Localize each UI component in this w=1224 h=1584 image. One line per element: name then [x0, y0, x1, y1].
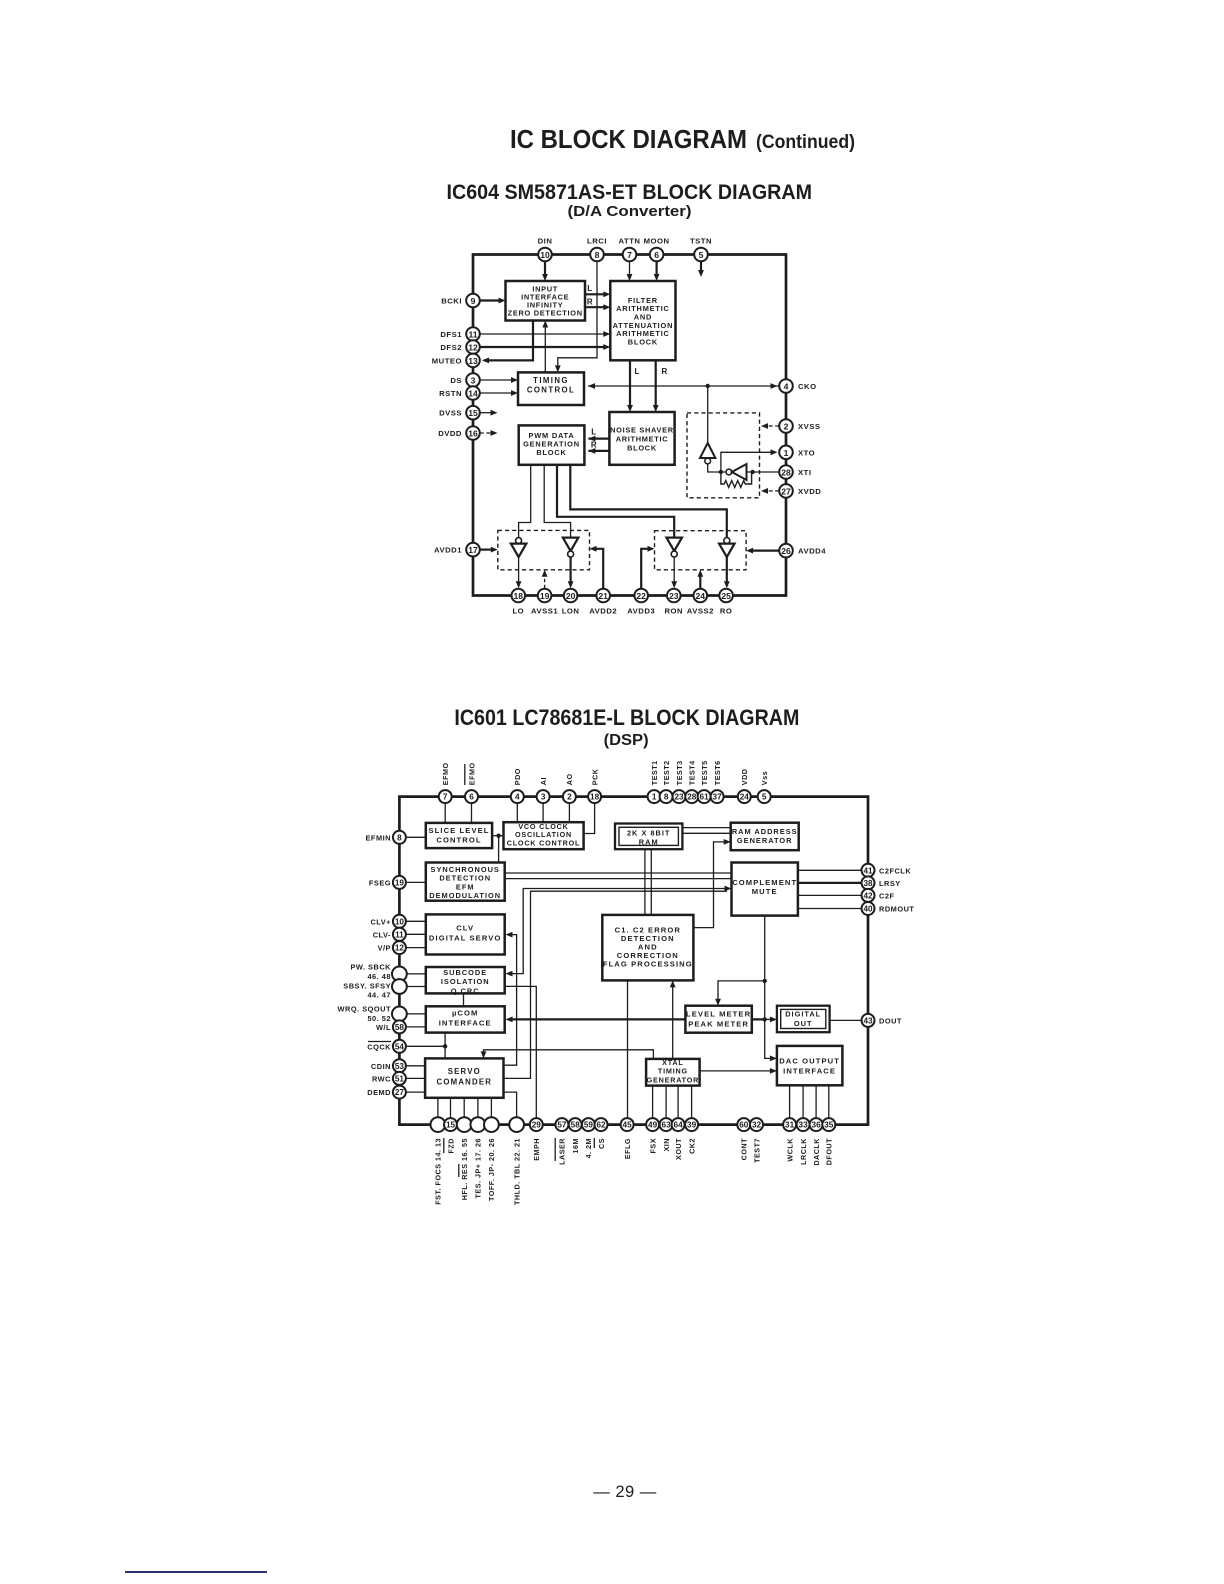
svg-text:RO: RO — [720, 607, 733, 616]
svg-text:CONT: CONT — [740, 1138, 749, 1160]
wire SUBCODE right to EMPH pin29 — [505, 986, 537, 1118]
pin 12 DFS2 — [466, 340, 480, 354]
arrowhead AVSS1 arrow — [542, 570, 548, 577]
buffer amplifier (clock output) — [700, 443, 715, 464]
svg-text:8: 8 — [664, 793, 669, 802]
pin (unnumbered) TES JP+ — [471, 1117, 486, 1132]
pin 8 LRCI — [590, 248, 604, 262]
svg-text:CLV+: CLV+ — [370, 917, 391, 926]
arrowhead into INPUT INTERFACE top — [542, 274, 548, 281]
wire SYNC to COMPLEMENT line 2 — [505, 878, 732, 880]
wire RAM to C1C2 line 2 — [650, 849, 652, 915]
svg-text:16: 16 — [468, 429, 478, 439]
wire DS pin3 to TIMING CONTROL — [480, 379, 514, 381]
wire AVSS2 pin24 into right driver box — [699, 574, 701, 588]
wire C1C2 to EFLG pin45 — [627, 980, 629, 1118]
wire SERVO bottom lead 3 — [463, 1098, 465, 1118]
svg-text:THLD. TBL 22. 21: THLD. TBL 22. 21 — [512, 1138, 521, 1205]
wire COMPLEMENT bottom trunk — [765, 916, 773, 1059]
svg-text:XOUT: XOUT — [674, 1138, 683, 1160]
wire AVDD4 pin26 into right driver box — [751, 549, 780, 551]
svg-text:BLOCK: BLOCK — [536, 448, 566, 457]
svg-text:18: 18 — [514, 591, 524, 601]
svg-text:DOUT: DOUT — [879, 1016, 902, 1025]
wire XTAL to C1C2 — [672, 984, 674, 1059]
wire W/L pin58 to uCOM — [406, 1026, 426, 1028]
pin 28 XTI — [779, 465, 793, 479]
wire C1C2 to RAM ADDRESS GENERATOR — [693, 842, 726, 928]
svg-text:4: 4 — [784, 382, 789, 392]
pin 4 PDO — [511, 790, 524, 803]
svg-text:EFM: EFM — [456, 882, 475, 891]
svg-text:EMPH: EMPH — [532, 1138, 541, 1161]
svg-text:39: 39 — [687, 1121, 697, 1130]
arrowhead ATTN into FILTER top — [627, 274, 633, 281]
svg-text:EFMIN: EFMIN — [366, 833, 392, 842]
svg-text:31: 31 — [785, 1121, 795, 1130]
arrowhead into pin23 — [671, 581, 677, 588]
svg-text:ISOLATION: ISOLATION — [441, 977, 490, 986]
arrowhead into pin20 — [568, 581, 574, 588]
svg-text:RWC: RWC — [372, 1074, 391, 1083]
svg-text:GENERATOR: GENERATOR — [647, 1075, 699, 1084]
wire trunk to uCOM INTERFACE — [509, 1018, 765, 1020]
wire EFMO-bar pin6 to SLICE LEVEL — [471, 803, 473, 823]
pin 16 DVDD — [466, 426, 480, 440]
junction CQCK junction — [443, 1044, 447, 1048]
svg-text:AVSS1: AVSS1 — [531, 607, 558, 616]
svg-text:41: 41 — [863, 866, 873, 875]
pin 36 DACLK — [810, 1118, 823, 1131]
pin 21 AVDD2 — [596, 589, 610, 603]
wire COMPLEMENT to C2FCLK pin41 — [798, 869, 862, 871]
pin 3 DS — [466, 373, 480, 387]
wire COMPLEMENT to RDMOUT pin40 — [798, 908, 862, 910]
svg-text:24: 24 — [696, 591, 706, 601]
svg-text:CK2: CK2 — [687, 1138, 696, 1154]
svg-text:CKO: CKO — [798, 382, 817, 391]
arrowhead into pin25 — [724, 581, 730, 588]
junction trunk junction at digital out — [763, 1017, 767, 1021]
svg-text:8: 8 — [397, 833, 402, 842]
wire NOISE SHAVER to PWM R — [588, 450, 609, 452]
svg-text:PEAK METER: PEAK METER — [688, 1019, 749, 1028]
wire XTAL bottom lead 3 — [677, 1086, 679, 1118]
wire DFS1 pin11 to FILTER — [480, 333, 607, 335]
svg-text:CDIN: CDIN — [371, 1062, 391, 1071]
dashed box: right analog output drivers — [655, 531, 747, 570]
svg-text:Q CRC: Q CRC — [451, 986, 480, 995]
pin 26 AVDD4 — [779, 544, 793, 558]
svg-text:(Continued): (Continued) — [756, 131, 855, 153]
svg-text:DVSS: DVSS — [439, 409, 462, 418]
svg-text:µCOM: µCOM — [452, 1009, 479, 1018]
svg-text:SUBCODE: SUBCODE — [443, 968, 487, 977]
svg-text:SERVO: SERVO — [448, 1067, 481, 1076]
wire PWM to LO driver — [519, 465, 531, 538]
wire PWM to RON driver — [557, 465, 674, 538]
svg-text:TEST4: TEST4 — [688, 760, 697, 785]
svg-text:12: 12 — [468, 343, 478, 353]
svg-text:RDMOUT: RDMOUT — [879, 905, 914, 914]
svg-text:VDD: VDD — [740, 769, 749, 786]
pin 14 RSTN — [466, 386, 480, 400]
pin (unnumbered) WRQ SQOUT 50 52 — [392, 1007, 407, 1022]
wire RAM to RAM ADDRESS 2 — [682, 832, 730, 834]
pin 27 DEMD — [393, 1086, 406, 1099]
wire buffer input from oscillator node — [708, 464, 726, 472]
wire RO driver to pin25 — [726, 557, 728, 583]
block: SUBCODE ISOLATION Q CRC — [426, 967, 505, 995]
wire RSTN pin14 to TIMING CONTROL — [480, 392, 514, 394]
svg-text:57: 57 — [557, 1121, 567, 1130]
pin 19 AVSS1 — [538, 589, 552, 603]
svg-text:54: 54 — [395, 1042, 405, 1051]
pin (unnumbered) FST FOCS — [431, 1117, 446, 1132]
arrowhead XTAL into DAC left — [770, 1068, 777, 1074]
arrowhead DVSS stub end — [491, 410, 498, 416]
svg-text:L: L — [587, 284, 592, 293]
wire XVDD into crystal box — [764, 490, 779, 492]
overline for CQCK label — [368, 1041, 391, 1043]
pin 54 CQCK — [393, 1040, 406, 1053]
svg-text:9: 9 — [471, 296, 476, 306]
wire EFMO pin7 to SLICE LEVEL — [444, 803, 446, 823]
wire DEMD pin27 to SERVO — [406, 1091, 425, 1093]
svg-text:IC604 SM5871AS-ET BLOCK DIAGRA: IC604 SM5871AS-ET BLOCK DIAGRAM — [447, 180, 813, 204]
pin 7 ATTN — [623, 248, 637, 262]
wire RAM to C1C2 line 1 — [644, 849, 646, 915]
wire LO driver to pin18 — [518, 557, 520, 583]
overline for EFMO-bar label — [464, 764, 466, 785]
junction osc node A — [719, 470, 723, 474]
svg-text:AVDD3: AVDD3 — [627, 607, 655, 616]
svg-text:32: 32 — [752, 1121, 762, 1130]
pin 37 TEST6 — [711, 790, 724, 803]
block: C1 C2 ERROR DETECTION AND CORRECTION FLAG PROCESSING — [602, 915, 693, 981]
block: NOISE SHAVER ARITHMETIC BLOCK — [609, 412, 674, 465]
svg-text:TEST3: TEST3 — [675, 760, 684, 785]
svg-text:23: 23 — [669, 591, 679, 601]
svg-text:DIGITAL: DIGITAL — [785, 1010, 821, 1019]
arrowhead BCKI into INPUT INTERFACE — [499, 298, 506, 304]
arrowhead DFS1 into FILTER — [603, 331, 610, 337]
svg-text:63: 63 — [662, 1121, 672, 1130]
wire SERVO to CLV DIGITAL SERVO — [504, 935, 517, 1066]
pin 23 RON — [667, 589, 681, 603]
svg-text:FSEG: FSEG — [369, 878, 391, 887]
svg-text:DIN: DIN — [538, 237, 553, 246]
arrowhead into LEVEL METER top — [715, 999, 721, 1006]
arrowhead AVDD3 into box — [648, 546, 655, 552]
svg-text:IC BLOCK DIAGRAM: IC BLOCK DIAGRAM — [510, 124, 747, 154]
wire XTAL to DAC OUTPUT — [700, 1070, 773, 1072]
arrowhead L into PWM — [588, 436, 595, 442]
arrowhead L into NOISE SHAVER — [627, 405, 633, 412]
pin 27 XVDD — [779, 484, 793, 498]
resistor (crystal feedback) — [721, 472, 752, 487]
svg-text:IC601 LC78681E-L BLOCK DIAGRAM: IC601 LC78681E-L BLOCK DIAGRAM — [454, 705, 799, 730]
pin 58 16M — [569, 1118, 582, 1131]
svg-text:HFL. RES 16. 55: HFL. RES 16. 55 — [460, 1138, 469, 1200]
pin 58 W/L — [393, 1020, 406, 1033]
svg-text:RAM: RAM — [639, 837, 659, 846]
svg-text:XIN: XIN — [662, 1138, 671, 1151]
overline for LASER label — [554, 1138, 556, 1161]
wire SERVO to COMPLEMENT parallel — [504, 891, 728, 1078]
block: COMPLEMENT MUTE — [732, 863, 798, 916]
svg-text:3: 3 — [541, 793, 546, 802]
pin 15 DVSS — [466, 406, 480, 420]
svg-text:L: L — [591, 428, 596, 437]
svg-text:1: 1 — [652, 793, 657, 802]
wire branch to DIGITAL OUT — [765, 1018, 773, 1020]
pin (unnumbered) TOFF JP- — [484, 1117, 499, 1132]
svg-text:TSTN: TSTN — [690, 237, 712, 246]
svg-text:AVDD2: AVDD2 — [589, 607, 617, 616]
svg-text:R: R — [662, 367, 668, 376]
wire FSEG pin19 to SYNCHRONOUS DETECTION — [406, 881, 426, 883]
svg-text:R: R — [591, 441, 597, 450]
wire DFS2 pin12 to FILTER — [480, 346, 607, 348]
junction CKO junction — [706, 384, 710, 388]
wire COMPLEMENT to LRSY pin38 — [798, 882, 862, 884]
block: DIGITAL OUT (double border) — [777, 1006, 830, 1032]
svg-text:11: 11 — [468, 330, 477, 340]
pin 57 LASER — [555, 1118, 568, 1131]
pin 43 DOUT — [862, 1014, 875, 1027]
pin 19 FSEG — [393, 876, 406, 889]
svg-text:38: 38 — [863, 879, 873, 888]
wire LRCI pin8 down-left to TIMING CONTROL — [558, 262, 597, 369]
pin 2 XVSS — [779, 419, 793, 433]
svg-text:Vss: Vss — [760, 771, 769, 785]
wire SERVO bottom lead 4 — [477, 1098, 479, 1118]
svg-text:EFMO: EFMO — [467, 762, 476, 785]
svg-text:24: 24 — [740, 793, 750, 802]
arrowhead R into PWM — [588, 448, 595, 454]
svg-text:14: 14 — [468, 389, 478, 399]
output driver RON (bubble bottom) — [666, 538, 682, 558]
pin 5 TSTN — [694, 248, 708, 262]
wire COMPLEMENT to C2F pin42 — [798, 894, 862, 896]
pin 6 EFMO-bar — [465, 790, 478, 803]
pin 41 C2FCLK — [862, 864, 875, 877]
wire AO pin2 to VCO — [568, 803, 570, 822]
pin 13 MUTEO — [466, 354, 480, 368]
svg-text:MUTEO: MUTEO — [432, 356, 462, 365]
svg-text:DFOUT: DFOUT — [825, 1138, 834, 1165]
pin 2 AO — [563, 790, 576, 803]
scan artifact: blue line bottom-left — [125, 1571, 267, 1573]
svg-text:42: 42 — [863, 891, 873, 900]
pin 5 VSS — [758, 790, 771, 803]
dashed box: crystal oscillator section — [687, 413, 760, 498]
svg-text:DFS1: DFS1 — [440, 330, 462, 339]
wire AI pin3 to VCO — [542, 803, 544, 822]
wire XTAL bottom lead 2 — [665, 1086, 667, 1118]
arrowhead into pin18 — [516, 581, 522, 588]
svg-text:28: 28 — [781, 468, 791, 478]
svg-text:23: 23 — [674, 793, 684, 802]
wire AVDD2 pin21 into left driver box — [594, 549, 603, 589]
svg-text:PCK: PCK — [590, 768, 599, 785]
wire PCK pin18 to VCO right — [584, 803, 595, 833]
block: TIMING CONTROL — [518, 372, 584, 405]
wire DAC bottom lead 1 — [789, 1085, 791, 1118]
pin 1 TEST1 — [648, 790, 661, 803]
wire CLV- pin11 to CLV — [406, 933, 426, 935]
svg-text:OUT: OUT — [794, 1019, 813, 1028]
svg-text:27: 27 — [395, 1088, 405, 1097]
pin (unnumbered) SBSY SFSY 44 47 — [392, 979, 407, 994]
svg-text:WRQ. SQOUT: WRQ. SQOUT — [338, 1005, 391, 1014]
pin 61 TEST5 — [698, 790, 711, 803]
svg-text:TOFF. JP- 20. 26: TOFF. JP- 20. 26 — [487, 1138, 496, 1201]
wire V/P pin12 to CLV — [406, 947, 426, 949]
pin 62 CS — [595, 1118, 608, 1131]
svg-text:45: 45 — [623, 1121, 633, 1130]
wire SBSY SFSY pin to SUBCODE — [407, 986, 426, 988]
svg-text:2: 2 — [784, 422, 789, 432]
arrowhead XVSS into box — [761, 423, 768, 429]
wire oscillator node to XTI — [747, 471, 780, 473]
svg-text:BLOCK: BLOCK — [627, 444, 657, 453]
svg-text:TEST2: TEST2 — [662, 760, 671, 785]
arrowhead DFS2 into FILTER — [603, 344, 610, 350]
pin 49 FSX — [646, 1118, 659, 1131]
wire INPUT to FILTER R channel — [585, 306, 606, 308]
wire RON driver to pin23 — [673, 558, 675, 583]
pin 33 LRCLK — [797, 1118, 810, 1131]
pin 35 DFOUT — [822, 1118, 835, 1131]
svg-text:25: 25 — [721, 591, 731, 601]
wire CLV+ pin10 to CLV — [406, 920, 426, 922]
svg-text:44. 47: 44. 47 — [367, 991, 391, 1000]
arrowhead R into FILTER — [603, 304, 610, 310]
svg-text:6: 6 — [654, 250, 659, 260]
svg-text:15: 15 — [468, 408, 478, 418]
svg-text:46. 48: 46. 48 — [367, 972, 391, 981]
svg-text:58: 58 — [571, 1121, 581, 1130]
wire SERVO bottom lead 5 — [490, 1098, 492, 1118]
svg-text:SLICE LEVEL: SLICE LEVEL — [428, 826, 489, 835]
pin 25 RO — [719, 589, 733, 603]
svg-text:TIMING: TIMING — [533, 376, 569, 385]
wire EFMIN pin8 to SLICE LEVEL — [406, 836, 426, 838]
svg-text:DVDD: DVDD — [438, 429, 462, 438]
svg-text:COMANDER: COMANDER — [437, 1078, 493, 1087]
svg-text:WCLK: WCLK — [785, 1138, 794, 1162]
svg-text:49: 49 — [648, 1121, 658, 1130]
pin 63 XIN — [660, 1118, 673, 1131]
svg-text:ZERO DETECTION: ZERO DETECTION — [508, 308, 583, 317]
wire DAC bottom lead 3 — [815, 1085, 817, 1118]
wire SERVO bottom lead 1 — [437, 1098, 439, 1118]
arrowhead into MUTEO pin13 — [482, 358, 489, 364]
pin 4 CKO — [779, 379, 793, 393]
svg-text:6: 6 — [469, 793, 474, 802]
pin (unnumbered) PW SBCK 46 48 — [392, 967, 407, 982]
block: VCO CLOCK OSCILLATION CLOCK CONTROL — [504, 822, 584, 849]
arrowhead up into INPUT INTERFACE bottom — [542, 321, 548, 328]
pin 51 RWC — [393, 1072, 406, 1085]
svg-text:SBSY. SFSY: SBSY. SFSY — [343, 981, 391, 990]
svg-text:1: 1 — [784, 448, 789, 458]
pin 31 WCLK — [783, 1118, 796, 1131]
svg-text:7: 7 — [627, 250, 632, 260]
pin 42 C2F — [862, 889, 875, 902]
svg-text:64: 64 — [674, 1121, 684, 1130]
wire SLICE LEVEL to VCO CLOCK — [492, 835, 503, 837]
block: SERVO COMANDER — [425, 1058, 503, 1097]
svg-text:TEST7: TEST7 — [752, 1138, 761, 1163]
svg-text:CONTROL: CONTROL — [436, 835, 481, 844]
svg-text:40: 40 — [863, 905, 873, 914]
wire IC604 outer boundary bus — [473, 255, 786, 596]
wire CQCK pin54 to uCOM and SERVO — [406, 1033, 445, 1059]
svg-text:13: 13 — [468, 356, 478, 366]
wire BCKI pin9 to INPUT INTERFACE — [480, 299, 502, 301]
svg-text:20: 20 — [566, 591, 576, 601]
wire RWC pin51 to SERVO — [406, 1077, 425, 1079]
svg-text:R: R — [587, 298, 593, 307]
inverter (crystal oscillator) — [726, 464, 747, 480]
wire AVSS1 pin19 into left driver box — [544, 574, 546, 588]
svg-text:TIMING: TIMING — [658, 1067, 688, 1076]
svg-text:BCKI: BCKI — [441, 297, 462, 306]
wire branch to LEVEL METER — [718, 981, 765, 1002]
wire IC601 outer boundary bus — [399, 797, 868, 1125]
arrowhead XVDD into box — [761, 488, 768, 494]
dashed box: left analog output drivers — [498, 530, 590, 569]
svg-text:5: 5 — [699, 250, 704, 260]
arrowhead up into C1C2 bottom — [670, 980, 676, 987]
wire XTAL bottom lead 4 — [691, 1086, 693, 1118]
svg-text:L: L — [635, 367, 640, 376]
svg-text:MOON: MOON — [644, 237, 670, 246]
svg-text:MUTE: MUTE — [752, 887, 778, 896]
pin (unnumbered) HFL RES — [457, 1117, 472, 1132]
svg-text:35: 35 — [824, 1121, 834, 1130]
svg-text:AO: AO — [565, 773, 574, 785]
pin 8 TEST2 — [660, 790, 673, 803]
svg-text:4. 2M: 4. 2M — [584, 1138, 593, 1158]
pin (unnumbered) THLD TBL — [509, 1117, 524, 1132]
wire INPUT to FILTER L channel — [585, 293, 606, 295]
svg-text:CQCK: CQCK — [367, 1042, 391, 1051]
pin 11 DFS1 — [466, 327, 480, 341]
pin 28 TEST4 — [685, 790, 698, 803]
svg-text:FSX: FSX — [648, 1138, 657, 1153]
svg-text:LRCI: LRCI — [587, 237, 607, 246]
wire TSTN pin5 stub — [700, 262, 702, 272]
svg-text:XTI: XTI — [798, 468, 811, 477]
arrowhead into TIMING CONTROL right — [588, 383, 595, 389]
arrowhead into RAM ADDRESS GEN left — [724, 839, 731, 845]
svg-text:ARITHMETIC: ARITHMETIC — [616, 435, 669, 444]
arrowhead into TIMING CONTROL top — [555, 365, 561, 372]
svg-text:CONTROL: CONTROL — [527, 385, 575, 394]
arrowhead RSTN into TIMING CONTROL — [511, 390, 518, 396]
svg-text:10: 10 — [395, 917, 405, 926]
block: RAM ADDRESS GENERATOR — [731, 823, 799, 851]
svg-text:TEST1: TEST1 — [650, 760, 659, 785]
arrowhead AVSS2 arrow — [697, 570, 703, 577]
arrowhead into DAC OUTPUT left — [770, 1056, 777, 1062]
wire PDO pin4 to VCO — [516, 803, 518, 822]
arrowhead into COMPLEMENT left — [725, 886, 732, 892]
